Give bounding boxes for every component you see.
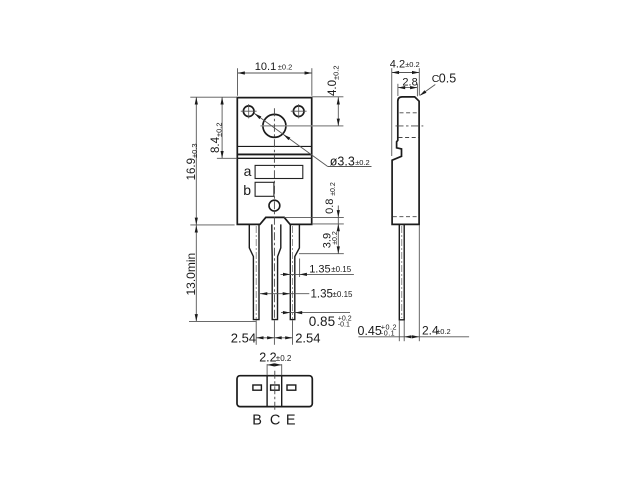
svg-text:10.1: 10.1 xyxy=(255,61,276,73)
svg-text:C: C xyxy=(270,412,280,428)
svg-text:±0.2: ±0.2 xyxy=(278,63,293,72)
svg-text:±0.2: ±0.2 xyxy=(436,327,451,336)
svg-text:4.2: 4.2 xyxy=(390,59,405,71)
svg-text:B: B xyxy=(252,412,262,428)
svg-text:±0.15: ±0.15 xyxy=(333,290,354,299)
svg-text:2.54: 2.54 xyxy=(231,331,256,346)
svg-text:1.35: 1.35 xyxy=(309,264,330,276)
svg-text:1.35: 1.35 xyxy=(311,289,333,301)
svg-text:2.8: 2.8 xyxy=(402,76,417,88)
svg-text:0.45: 0.45 xyxy=(358,324,382,338)
svg-text:a: a xyxy=(244,163,252,179)
svg-text:13.0min: 13.0min xyxy=(184,253,198,296)
svg-text:0.85: 0.85 xyxy=(309,314,335,329)
svg-text:0.8: 0.8 xyxy=(324,199,336,214)
svg-text:ø3.3: ø3.3 xyxy=(330,154,355,168)
svg-text:±0.2: ±0.2 xyxy=(332,231,339,245)
svg-text:0.5: 0.5 xyxy=(439,71,456,85)
svg-text:2.2: 2.2 xyxy=(259,351,276,365)
svg-text:-0.1: -0.1 xyxy=(338,321,350,328)
svg-text:4.0±0.2: 4.0±0.2 xyxy=(327,65,340,96)
svg-text:2.54: 2.54 xyxy=(295,331,320,346)
svg-text:b: b xyxy=(243,182,251,198)
svg-text:±0.2: ±0.2 xyxy=(405,60,420,69)
svg-text:-0.1: -0.1 xyxy=(381,329,395,338)
svg-text:±0.2: ±0.2 xyxy=(355,158,370,167)
svg-text:E: E xyxy=(286,412,296,428)
svg-text:±0.2: ±0.2 xyxy=(330,182,337,196)
svg-text:±0.15: ±0.15 xyxy=(331,265,352,274)
svg-text:8.4±0.2: 8.4±0.2 xyxy=(210,122,223,153)
svg-text:16.9±0.3: 16.9±0.3 xyxy=(186,143,199,180)
svg-text:±0.2: ±0.2 xyxy=(276,354,292,363)
